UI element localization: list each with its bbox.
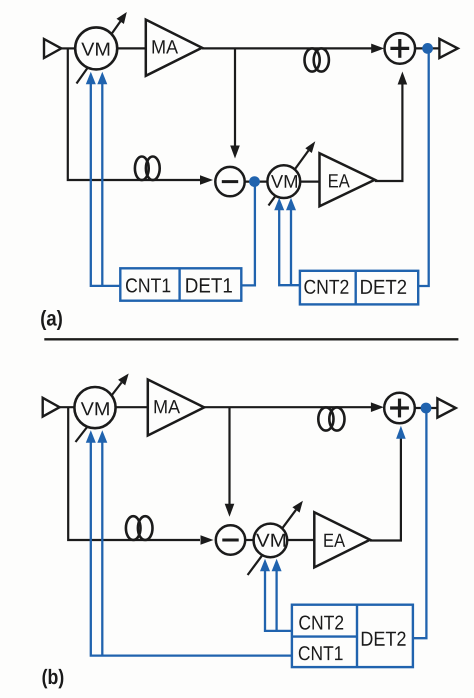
arrowhead down into subtractor (a) <box>230 146 240 159</box>
controller/detector box CNT1 DET1 (a) <box>120 268 241 300</box>
wire branch down from MA output node (b) <box>228 407 230 504</box>
wire combiner to output (b) <box>415 407 438 409</box>
VM1 adjust arrow (b) <box>76 383 122 443</box>
blue wire DET2 to output node (a) <box>418 48 429 286</box>
input amplifier triangle (b) <box>43 398 60 417</box>
blue control wires CNT1 to VM1 (a) <box>91 84 121 286</box>
arrowhead into subtractor (b) <box>201 535 214 545</box>
combiner plus circle (a) <box>385 33 416 64</box>
wire MA to combiner (a) <box>202 47 374 49</box>
arrowhead into subtractor (a) <box>200 175 213 185</box>
subtractor circle (b) <box>216 525 245 554</box>
node O1 blue junction dot (a) <box>422 43 433 54</box>
output amplifier triangle (b) <box>437 398 455 417</box>
vector modulator VM2 (b) <box>254 524 288 558</box>
blue wire DET1 to node E1 (a) <box>242 182 255 286</box>
combiner plus circle (b) <box>384 393 415 424</box>
error amplifier EA (b) <box>314 512 370 567</box>
wire input to VM1 (a) <box>61 47 76 49</box>
vector modulator VM2 (a) <box>267 165 300 198</box>
arrowhead up into combiner (a) <box>398 72 408 85</box>
error amplifier EA (a) <box>320 153 375 206</box>
vector modulator VM1 (a) <box>75 27 117 69</box>
wire VM1 to MA (b) <box>116 406 148 408</box>
main amplifier MA (b) <box>148 380 204 436</box>
blue control wires CNT1 to VM1 (b) <box>91 443 292 656</box>
wire MA to combiner (b) <box>204 406 373 408</box>
output amplifier triangle (a) <box>439 39 457 58</box>
input amplifier triangle (a) <box>44 39 61 58</box>
wire VM2 to EA (a) <box>300 181 320 183</box>
main amplifier MA (a) <box>146 20 202 76</box>
VM2 adjust arrow (b) <box>248 510 296 575</box>
vector modulator VM1 (b) <box>74 387 115 428</box>
wire subtractor to VM2 (a) <box>245 181 268 183</box>
wire branch down from input node (b) <box>68 407 200 540</box>
subtractor circle (a) <box>215 167 244 196</box>
blue arrowhead up into combiner (b) <box>396 426 406 439</box>
wire branch down from input node (a) <box>68 48 200 180</box>
VM1 adjust arrow (a) <box>77 21 121 83</box>
delay line coil lower (a) <box>135 157 149 181</box>
wire VM2 to EA (b) <box>287 539 315 541</box>
delay line coil top (a) <box>305 48 320 71</box>
wire branch down from MA output node (a) <box>234 48 236 146</box>
blue control wires CNT2 to VM2 (b) <box>265 571 292 631</box>
label (b) <box>42 669 63 688</box>
delay line coil lower (b) <box>126 516 141 540</box>
arrowhead into combiner (b) <box>371 402 384 412</box>
arrowhead down into subtractor (b) <box>225 504 235 517</box>
wire EA to combiner (b) <box>370 439 401 541</box>
wire subtractor to VM2 (b) <box>245 539 255 541</box>
controller/detector box CNT2 CNT1 DET2 (b) <box>292 605 413 667</box>
label (a) <box>41 310 62 330</box>
wire VM1 to MA (a) <box>117 47 146 49</box>
node E1 blue junction dot (a) <box>249 176 260 187</box>
wire combiner to output (a) <box>415 47 440 49</box>
wire EA to combiner (a) <box>375 84 403 181</box>
blue control wires CNT2 to VM2 (a) <box>279 210 300 285</box>
separator line <box>44 338 458 340</box>
delay line coil top (b) <box>318 407 333 430</box>
controller/detector box CNT2 DET2 (a) <box>300 271 418 305</box>
VM2 adjust arrow (a) <box>269 151 309 206</box>
node O2 blue junction dot (b) <box>421 403 432 414</box>
blue wire DET2 to output node (b) <box>413 408 426 638</box>
wire input to VM1 (b) <box>60 406 76 408</box>
arrowhead into combiner (a) <box>371 44 384 54</box>
